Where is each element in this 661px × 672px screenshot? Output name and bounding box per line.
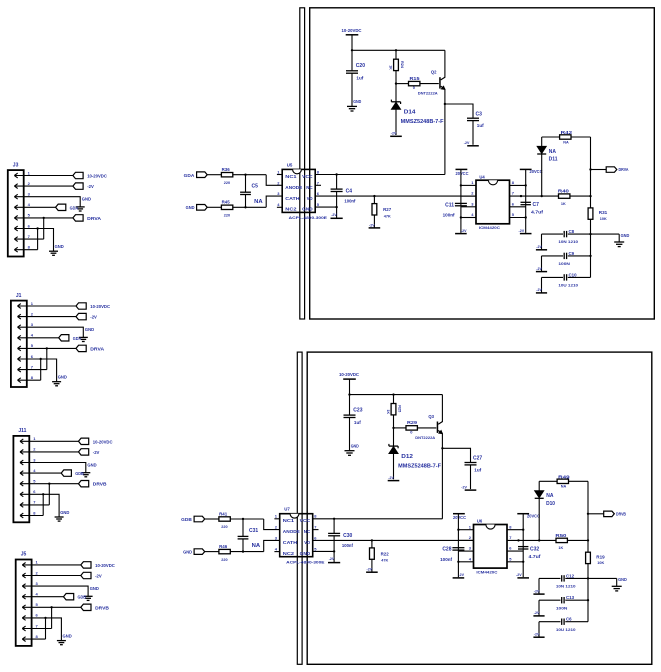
svg-text:NC2: NC2	[283, 551, 295, 556]
svg-text:1uf: 1uf	[354, 420, 361, 425]
svg-text:U5: U5	[287, 162, 293, 167]
U4 pin 8 stub	[510, 184, 526, 186]
svg-text:CATH: CATH	[283, 540, 298, 545]
wire: right rail	[525, 169, 527, 233]
zener diode D12 MMSZ5248B-7-F	[393, 428, 395, 446]
capacitor C7	[521, 201, 531, 203]
U6 pin 4 stub	[458, 561, 473, 563]
svg-text:C30: C30	[343, 533, 352, 539]
svg-text:-2V: -2V	[519, 229, 525, 233]
svg-text:VO: VO	[307, 196, 313, 201]
wire pin6-pin8 strap	[37, 229, 39, 250]
svg-text:GND: GND	[85, 327, 94, 332]
wire: cap return leg	[587, 578, 589, 621]
svg-text:10-20VDC: 10-20VDC	[339, 372, 360, 377]
svg-text:C11: C11	[445, 202, 454, 208]
svg-text:C3: C3	[476, 111, 483, 117]
svg-text:10-20VDC: 10-20VDC	[90, 304, 110, 309]
wire pin5-pin7 strap	[51, 607, 53, 628]
resistor R29	[394, 427, 407, 429]
wire VIN rail	[350, 394, 443, 396]
capacitor C6	[539, 621, 561, 623]
tag 10-20VDC	[73, 172, 83, 178]
svg-text:NA: NA	[252, 543, 261, 549]
svg-text:100nf: 100nf	[440, 557, 452, 562]
diode D10 (NA)	[538, 498, 540, 540]
svg-text:J5: J5	[21, 552, 27, 558]
J5 pin 7 arrow	[22, 626, 25, 628]
wire: VO output	[315, 195, 476, 197]
svg-text:DRVA: DRVA	[90, 346, 105, 351]
wire: output right leg	[587, 481, 589, 540]
wire: 20VCC feed to opto pin8	[313, 518, 443, 520]
pin 7 stub	[315, 184, 321, 186]
svg-text:1uf: 1uf	[356, 76, 363, 81]
capacitor C8	[542, 233, 564, 235]
node	[335, 173, 337, 175]
svg-text:C12: C12	[566, 573, 575, 578]
svg-text:10U 1210: 10U 1210	[556, 627, 576, 632]
svg-text:GND: GND	[58, 375, 67, 380]
circuit enclosure box	[307, 352, 652, 664]
diode D11 (NA)	[541, 154, 543, 196]
J11 pin 2 wire	[20, 451, 79, 453]
tag DRVB	[79, 481, 89, 487]
capacitor C31 (NA)	[242, 519, 244, 537]
J1 pin 7 wire	[18, 369, 47, 371]
junction	[46, 347, 48, 349]
node: base divider	[392, 427, 394, 429]
tag -2V	[79, 449, 89, 455]
svg-text:R15: R15	[410, 76, 421, 81]
wire to ground	[591, 233, 620, 235]
power flag 20VCC (left)	[456, 168, 468, 170]
svg-text:C13: C13	[566, 595, 575, 600]
svg-text:-2V: -2V	[464, 141, 470, 145]
svg-text:DRVB: DRVB	[616, 512, 626, 517]
tag DRVA	[73, 215, 83, 221]
capacitor C23	[349, 395, 351, 416]
wire	[538, 600, 540, 616]
svg-text:C10: C10	[569, 272, 578, 277]
svg-text:20VCC: 20VCC	[456, 171, 469, 176]
svg-text:C9: C9	[569, 251, 575, 256]
J3 pin 8 wire	[14, 249, 37, 251]
svg-text:R42: R42	[561, 130, 573, 135]
svg-text:C7: C7	[533, 202, 540, 208]
J5 pin 4 arrow	[22, 594, 25, 596]
junction	[36, 227, 38, 229]
power flag 20VCC (right)	[520, 168, 532, 170]
svg-text:DNT2222A: DNT2222A	[418, 91, 438, 96]
wire: right rail	[522, 514, 524, 578]
J1 pin 2 arrow	[18, 314, 21, 316]
svg-text:VCC: VCC	[302, 174, 313, 179]
J1 pin 7 arrow	[18, 367, 21, 369]
U6 pin 2 stub	[458, 539, 473, 541]
svg-text:MMSZ5248B-7-F: MMSZ5248B-7-F	[398, 463, 441, 469]
svg-text:D12: D12	[401, 454, 413, 460]
svg-text:4.7uf: 4.7uf	[529, 554, 542, 559]
circuit enclosure box	[310, 8, 655, 319]
svg-text:C20: C20	[356, 63, 365, 69]
svg-text:C23: C23	[353, 407, 362, 413]
wire pin6-pin8 strap	[45, 618, 47, 639]
node	[242, 550, 244, 552]
J11 pin 5 wire	[20, 483, 79, 485]
svg-text:-2V: -2V	[461, 486, 467, 490]
power flag 20VCC (right)	[517, 513, 529, 515]
svg-text:-2V: -2V	[391, 132, 397, 136]
resistor R42 (NA)	[542, 136, 560, 138]
svg-text:R46: R46	[219, 544, 228, 549]
junction	[42, 493, 44, 495]
wire anode jog	[264, 519, 280, 530]
svg-text:1K: 1K	[561, 202, 566, 206]
svg-text:220: 220	[221, 558, 227, 562]
node	[589, 233, 591, 235]
resistor R36	[207, 174, 221, 176]
svg-text:U4: U4	[479, 174, 485, 179]
resistor R49 (NA)	[539, 480, 557, 482]
node: emitter/C3	[441, 447, 443, 449]
svg-text:J3: J3	[13, 162, 19, 168]
svg-text:GDA: GDA	[184, 173, 195, 178]
svg-text:NC: NC	[304, 529, 311, 534]
pin 1 stub	[274, 518, 279, 520]
svg-text:GND: GND	[351, 444, 359, 449]
tag 10-20VDC	[81, 562, 91, 568]
J5 pin 6 arrow	[22, 616, 25, 618]
U4 pin 7 stub	[510, 195, 526, 197]
wire	[351, 35, 353, 51]
svg-text:DRVA: DRVA	[619, 167, 629, 172]
svg-text:GND: GND	[302, 207, 313, 212]
svg-text:ICM4420C: ICM4420C	[479, 226, 501, 230]
J3 pin 1 arrow	[14, 173, 17, 175]
J11 pin 8 wire	[20, 515, 43, 517]
node	[244, 206, 246, 208]
svg-text:GDA: GDA	[70, 205, 79, 210]
J3 pin 8 arrow	[14, 247, 17, 249]
J11 pin 7 arrow	[20, 503, 23, 505]
node: VIN rail	[348, 393, 350, 395]
svg-text:DRVB: DRVB	[93, 482, 108, 487]
svg-text:U7: U7	[284, 507, 290, 512]
svg-text:NA: NA	[546, 493, 554, 499]
wire: emitter to VCC	[441, 433, 443, 519]
svg-text:NC1: NC1	[283, 518, 295, 523]
svg-text:R41: R41	[219, 511, 228, 516]
svg-text:100nf: 100nf	[344, 199, 355, 204]
svg-text:220: 220	[221, 525, 227, 529]
J1 pin 1 wire	[18, 305, 77, 307]
J3 pin 5 arrow	[14, 216, 17, 218]
capacitor C4	[336, 175, 338, 189]
svg-text:10-20VDC: 10-20VDC	[93, 439, 113, 444]
svg-text:C28: C28	[442, 547, 451, 553]
svg-text:NA: NA	[254, 199, 263, 205]
J1 pin 3 wire to GND	[18, 327, 84, 337]
node: emitter/C3	[444, 103, 446, 105]
pin 5 wire	[313, 550, 334, 552]
svg-text:GND: GND	[621, 233, 630, 238]
svg-text:C5: C5	[252, 184, 259, 190]
svg-text:20VCC: 20VCC	[527, 514, 540, 519]
junction	[40, 358, 42, 360]
resistor R46	[205, 551, 219, 553]
U6 pin 1 stub	[458, 529, 473, 531]
svg-text:D14: D14	[404, 110, 416, 116]
junctions	[457, 529, 459, 531]
tag -2V	[81, 572, 91, 578]
svg-text:10U 1210: 10U 1210	[558, 283, 578, 288]
svg-text:ACPL-4800-300E: ACPL-4800-300E	[286, 560, 325, 565]
tag GDB	[64, 594, 74, 600]
junctions	[460, 184, 462, 186]
U4 pin 3 stub	[461, 206, 476, 208]
J11 pin 1 wire	[20, 440, 79, 442]
svg-text:1K: 1K	[386, 409, 390, 414]
resistor R22	[371, 539, 373, 541]
svg-text:CATH: CATH	[285, 196, 300, 201]
svg-text:ACPL-4800-300E: ACPL-4800-300E	[289, 215, 328, 220]
wire pin5-pin7 strap	[46, 348, 48, 369]
svg-text:GND: GND	[183, 550, 193, 555]
svg-text:47K: 47K	[384, 214, 391, 218]
svg-text:J1: J1	[16, 293, 22, 299]
svg-text:U6: U6	[477, 519, 483, 524]
svg-text:GDB: GDB	[181, 517, 192, 522]
svg-text:GDB: GDB	[75, 471, 84, 476]
svg-text:VCC: VCC	[300, 518, 311, 523]
wire pin6-pin8 strap	[42, 494, 44, 515]
wire: VO output	[313, 539, 474, 541]
wire: left rail	[460, 169, 462, 233]
svg-text:GND: GND	[90, 586, 99, 591]
svg-text:NC2: NC2	[285, 207, 297, 212]
capacitor C12	[539, 577, 561, 579]
svg-text:100nf: 100nf	[342, 543, 353, 548]
svg-text:ANODE: ANODE	[283, 529, 300, 534]
svg-text:10K: 10K	[597, 561, 604, 565]
svg-text:R50: R50	[555, 533, 567, 538]
U6 pin 6 stub	[507, 550, 523, 552]
U4 pin 4 stub	[461, 217, 476, 219]
J5 pin 1 arrow	[22, 563, 25, 565]
svg-text:GND: GND	[300, 551, 311, 556]
tag DRVB	[587, 513, 589, 515]
svg-text:1uf: 1uf	[474, 467, 481, 472]
capacitor C20	[351, 50, 353, 71]
node	[541, 195, 543, 197]
J5 pin 5 wire	[22, 606, 81, 608]
svg-text:20VCC: 20VCC	[453, 515, 466, 520]
svg-text:GND: GND	[87, 462, 96, 467]
svg-text:D10: D10	[546, 501, 555, 507]
wire VIN rail	[352, 49, 445, 51]
svg-text:-2V: -2V	[534, 611, 540, 615]
tag -2V	[73, 183, 83, 189]
wire pin6-pin8 strap	[40, 359, 42, 380]
J11 pin 4 wire	[20, 472, 61, 474]
svg-text:R29: R29	[407, 420, 418, 425]
resistor R27	[373, 195, 375, 197]
svg-text:R24: R24	[400, 61, 404, 69]
J5 pin 4 wire	[22, 596, 63, 598]
tag GDB	[61, 470, 71, 476]
svg-text:-2V: -2V	[369, 223, 375, 227]
svg-text:J11: J11	[18, 428, 26, 434]
capacitor C32	[518, 546, 528, 548]
svg-text:1K: 1K	[558, 546, 563, 550]
J11 pin 6 wire to GND	[20, 494, 59, 517]
U6 pin 8 stub	[507, 529, 523, 531]
svg-text:10N 1210: 10N 1210	[558, 239, 578, 244]
wire cathode jog	[264, 540, 280, 551]
svg-text:-2V: -2V	[536, 245, 542, 249]
svg-text:47K: 47K	[381, 559, 388, 563]
wire: left rail	[457, 514, 459, 578]
svg-text:GND: GND	[82, 197, 91, 202]
capacitor C9	[542, 255, 564, 257]
tag 10-20VDC	[79, 438, 89, 444]
J5 pin 3 arrow	[22, 584, 25, 586]
resistor R50	[556, 538, 567, 542]
capacitor C5 (NA)	[245, 175, 247, 193]
J3 pin 4 arrow	[14, 205, 17, 207]
svg-text:-2V: -2V	[516, 573, 522, 577]
J3 pin 6 wire to GND	[14, 229, 53, 252]
pin 7 stub	[313, 529, 319, 531]
svg-text:Q2: Q2	[431, 70, 437, 75]
capacitor C10	[542, 276, 564, 278]
resistor R40	[559, 194, 570, 198]
J3 pin 7 arrow	[14, 237, 17, 239]
svg-text:-2V: -2V	[87, 184, 94, 189]
J5 pin 7 wire	[22, 628, 51, 630]
wire	[349, 379, 351, 395]
node	[242, 518, 244, 520]
svg-text:R49: R49	[558, 474, 570, 479]
tag DRVA	[76, 345, 86, 351]
J11 pin 8 arrow	[20, 513, 23, 515]
svg-text:-2V: -2V	[536, 288, 542, 292]
capacitor C28	[452, 547, 464, 549]
svg-text:-2V: -2V	[95, 574, 102, 579]
svg-text:GND: GND	[60, 510, 69, 515]
svg-text:100nf: 100nf	[443, 213, 455, 218]
resistor R24	[395, 50, 397, 59]
svg-text:ICM4420C: ICM4420C	[476, 571, 498, 575]
junction	[44, 617, 46, 619]
J3 pin 1 wire	[14, 175, 73, 177]
U6 pin 7 stub	[507, 539, 523, 541]
wire to ground	[588, 577, 617, 579]
node: base divider	[395, 82, 397, 84]
svg-text:-2V: -2V	[367, 568, 373, 572]
capacitor C11	[455, 202, 467, 204]
svg-text:ANODE: ANODE	[285, 185, 302, 190]
wire anode jog	[266, 175, 282, 186]
svg-text:C6: C6	[566, 617, 572, 622]
J5 pin 5 arrow	[22, 605, 25, 607]
svg-text:-2V: -2V	[331, 213, 337, 217]
svg-text:R19: R19	[596, 555, 605, 560]
node	[333, 518, 335, 520]
svg-text:-2V: -2V	[536, 267, 542, 271]
J1 pin 1 arrow	[18, 304, 21, 306]
svg-text:1K: 1K	[389, 65, 393, 70]
svg-text:NA: NA	[561, 485, 567, 489]
J3 pin 5 wire	[14, 217, 73, 219]
J3 pin 6 arrow	[14, 226, 17, 228]
J3 pin 2 arrow	[14, 184, 17, 186]
J1 pin 6 wire to GND	[18, 359, 57, 382]
pin 4 stub	[277, 206, 282, 208]
svg-text:NA: NA	[563, 140, 569, 144]
wire	[541, 277, 543, 293]
wire	[538, 578, 540, 594]
svg-text:R25: R25	[398, 405, 402, 412]
svg-text:DNT2222A: DNT2222A	[415, 435, 435, 440]
J5 pin 2 wire	[22, 575, 81, 577]
svg-text:D11: D11	[549, 157, 558, 163]
J5 pin 3 wire to GND	[22, 586, 88, 596]
svg-text:-2V: -2V	[461, 229, 467, 233]
J11 pin 1 arrow	[20, 439, 23, 441]
wire	[541, 234, 543, 250]
svg-text:GND: GND	[63, 634, 72, 639]
tag 10-20VDC	[76, 303, 86, 309]
wire	[538, 622, 540, 638]
resistor R19	[587, 540, 589, 552]
J3 pin 4 wire	[14, 206, 55, 208]
svg-text:-2V: -2V	[534, 589, 540, 593]
J5 pin 8 wire	[22, 638, 45, 640]
U4 pin 1 stub	[461, 184, 476, 186]
J3 pin 2 wire	[14, 185, 73, 187]
svg-text:-2V: -2V	[458, 573, 464, 577]
svg-text:GND: GND	[186, 205, 196, 210]
svg-text:DRVB: DRVB	[95, 605, 110, 610]
svg-text:GND: GND	[55, 244, 64, 249]
isolation barrier	[297, 352, 302, 664]
resistor R41	[205, 518, 219, 520]
svg-text:10K: 10K	[600, 217, 607, 221]
svg-text:-2V: -2V	[93, 450, 100, 455]
J1 pin 5 arrow	[18, 346, 21, 348]
J5 pin 2 arrow	[22, 573, 25, 575]
J1 pin 4 wire	[18, 337, 59, 339]
J1 pin 8 arrow	[18, 378, 21, 380]
svg-text:1uf: 1uf	[477, 123, 484, 128]
J11 pin 3 wire to GND	[20, 463, 86, 473]
junction	[43, 217, 45, 219]
tag GDA	[59, 335, 69, 341]
J11 pin 5 arrow	[20, 481, 23, 483]
wire: 20VCC feed to opto pin8	[315, 174, 445, 176]
svg-text:MMSZ5248B-7-F: MMSZ5248B-7-F	[401, 119, 444, 125]
svg-text:R36: R36	[222, 167, 231, 172]
svg-text:R40: R40	[558, 189, 570, 194]
pin 4 stub	[274, 551, 279, 553]
svg-text:GND: GND	[353, 99, 361, 104]
wire cathode jog	[266, 196, 282, 207]
pin 5 wire	[315, 206, 336, 208]
J1 pin 4 arrow	[18, 335, 21, 337]
svg-text:10-20VDC: 10-20VDC	[95, 563, 115, 568]
